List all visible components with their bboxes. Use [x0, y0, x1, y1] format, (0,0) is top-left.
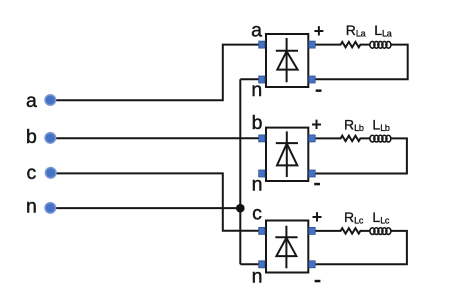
- svg-text:b: b: [26, 126, 37, 148]
- svg-text:n: n: [26, 196, 37, 218]
- svg-text:+: +: [314, 21, 325, 41]
- svg-text:n: n: [252, 266, 263, 288]
- svg-text:n: n: [252, 174, 263, 196]
- svg-text:a: a: [251, 20, 262, 42]
- svg-text:c: c: [27, 162, 37, 184]
- svg-text:a: a: [26, 90, 37, 112]
- svg-text:c: c: [252, 202, 262, 224]
- svg-text:+: +: [312, 207, 323, 227]
- svg-text:+: +: [311, 115, 322, 135]
- svg-text:n: n: [251, 79, 262, 101]
- svg-text:b: b: [252, 112, 263, 134]
